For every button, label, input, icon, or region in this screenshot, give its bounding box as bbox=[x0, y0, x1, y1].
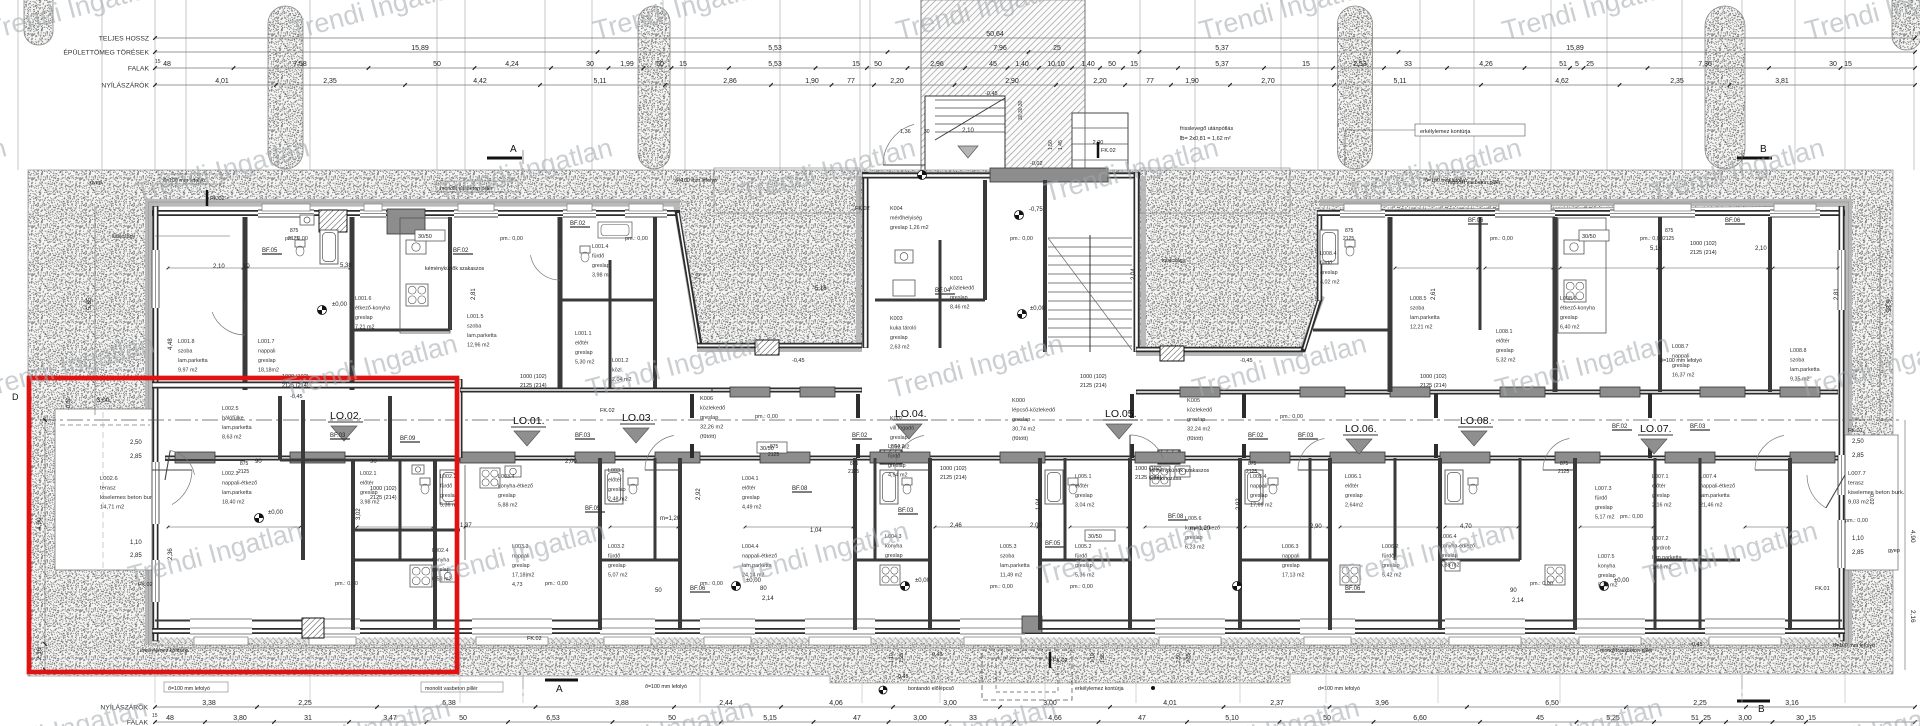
svg-text:fürdő: fürdő bbox=[888, 454, 900, 460]
exterior wall: north right section bbox=[1317, 210, 1845, 216]
svg-text:pm.: 0,00: pm.: 0,00 bbox=[1280, 414, 1303, 420]
hatched section block above stairwell bbox=[921, 0, 1085, 172]
svg-text:kéménykürtők szakaszos: kéménykürtők szakaszos bbox=[425, 266, 485, 272]
interior dimension witness lines upper rooms bbox=[167, 267, 1840, 270]
svg-text:3,80: 3,80 bbox=[233, 715, 247, 722]
svg-text:15: 15 bbox=[155, 59, 161, 65]
svg-text:5,17 m2: 5,17 m2 bbox=[1595, 515, 1614, 521]
svg-text:kéménykürtők szakaszos: kéménykürtők szakaszos bbox=[1150, 468, 1210, 474]
right edge vertical dims bbox=[1904, 420, 1906, 670]
svg-text:lépcső-közlekedő: lépcső-közlekedő bbox=[1012, 408, 1055, 414]
svg-text:előtér: előtér bbox=[575, 341, 589, 347]
svg-text:1,95: 1,95 bbox=[1100, 653, 1106, 663]
svg-text:2,50: 2,50 bbox=[1176, 653, 1182, 663]
svg-text:3,00: 3,00 bbox=[943, 700, 957, 707]
svg-text:L004.2: L004.2 bbox=[888, 444, 905, 450]
svg-text:előtér: előtér bbox=[1652, 484, 1666, 490]
svg-text:BF.02: BF.02 bbox=[570, 221, 586, 227]
svg-text:2125 (214): 2125 (214) bbox=[370, 495, 397, 501]
svg-text:2,25: 2,25 bbox=[298, 700, 312, 707]
svg-text:NYÍLÁSZÁRÓK: NYÍLÁSZÁRÓK bbox=[101, 81, 149, 90]
svg-text:BF.08: BF.08 bbox=[1168, 514, 1184, 520]
svg-text:3,00: 3,00 bbox=[1738, 715, 1752, 722]
svg-text:80: 80 bbox=[760, 586, 767, 592]
svg-text:2,92: 2,92 bbox=[696, 488, 702, 500]
svg-text:21,46 m2: 21,46 m2 bbox=[1700, 503, 1722, 509]
svg-text:4,01: 4,01 bbox=[1163, 700, 1177, 707]
svg-text:30/50: 30/50 bbox=[1088, 534, 1102, 540]
svg-text:lam.parketta: lam.parketta bbox=[1700, 493, 1730, 499]
svg-text:szoba: szoba bbox=[1410, 306, 1424, 312]
stairwell block east wall bbox=[1134, 172, 1140, 352]
svg-text:FK.02: FK.02 bbox=[855, 206, 870, 212]
svg-text:erkélylemez kontúrja: erkélylemez kontúrja bbox=[1420, 129, 1471, 135]
svg-text:L006.1: L006.1 bbox=[1345, 474, 1362, 480]
svg-text:30,74 m2: 30,74 m2 bbox=[1012, 427, 1035, 433]
chimney block north wall bbox=[319, 210, 347, 232]
svg-text:-0,45: -0,45 bbox=[985, 91, 998, 97]
svg-text:1,04: 1,04 bbox=[810, 528, 822, 534]
svg-text:greslap: greslap bbox=[1250, 493, 1268, 499]
svg-text:greslap: greslap bbox=[950, 295, 968, 301]
svg-text:greslap: greslap bbox=[1187, 417, 1205, 423]
svg-text:monolit vasbeton pillér: monolit vasbeton pillér bbox=[1600, 648, 1653, 654]
dimension row NYILASZAROK bbox=[155, 84, 1915, 86]
svg-text:BF.03: BF.03 bbox=[898, 508, 914, 514]
svg-text:kiselemes beton burk.: kiselemes beton burk. bbox=[1848, 490, 1905, 496]
svg-text:fürdő: fürdő bbox=[592, 254, 604, 260]
svg-text:15: 15 bbox=[679, 61, 687, 68]
svg-text:pm.: 0,00: pm.: 0,00 bbox=[1845, 518, 1868, 524]
svg-text:2,90: 2,90 bbox=[1310, 524, 1322, 530]
svg-text:7,36: 7,36 bbox=[1698, 61, 1712, 68]
svg-text:1,10: 1,10 bbox=[130, 540, 142, 546]
svg-text:greslap: greslap bbox=[592, 263, 610, 269]
svg-text:2125 (214): 2125 (214) bbox=[940, 475, 967, 481]
svg-text:2,14: 2,14 bbox=[1512, 598, 1524, 604]
bath pod L001 fixtures bbox=[320, 230, 338, 264]
svg-text:L008.4: L008.4 bbox=[1320, 251, 1337, 257]
svg-text:77: 77 bbox=[1146, 78, 1154, 85]
svg-text:875: 875 bbox=[1665, 228, 1674, 234]
svg-text:greslap: greslap bbox=[355, 315, 373, 321]
svg-text:BF.08: BF.08 bbox=[792, 486, 808, 492]
svg-text:11,49 m2: 11,49 m2 bbox=[1000, 573, 1022, 579]
chimney pod L005 bbox=[1158, 450, 1180, 464]
svg-text:fürdő: fürdő bbox=[1595, 496, 1607, 502]
bath L003 fixtures bbox=[605, 470, 623, 504]
svg-text:15: 15 bbox=[1302, 61, 1310, 68]
svg-text:2,85: 2,85 bbox=[1852, 453, 1864, 459]
svg-text:45: 45 bbox=[1536, 715, 1544, 722]
svg-text:BF.03: BF.03 bbox=[330, 433, 346, 439]
svg-text:szoba: szoba bbox=[1790, 358, 1804, 364]
svg-text:1,95: 1,95 bbox=[899, 653, 905, 663]
svg-text:2125 (214): 2125 (214) bbox=[1420, 383, 1447, 389]
svg-text:2,35: 2,35 bbox=[323, 78, 337, 85]
svg-text:5,88 m2: 5,88 m2 bbox=[498, 503, 517, 509]
fixtures L007 bbox=[1445, 470, 1463, 504]
section line B-B bbox=[1741, 150, 1743, 700]
svg-text:lam.parketta: lam.parketta bbox=[178, 358, 208, 364]
svg-text:5,16: 5,16 bbox=[1650, 246, 1662, 252]
svg-text:8,46 m2: 8,46 m2 bbox=[950, 305, 969, 311]
svg-text:3,02: 3,02 bbox=[356, 508, 362, 520]
chimney corridor left bbox=[755, 340, 779, 355]
svg-text:2125 (214): 2125 (214) bbox=[1690, 250, 1717, 256]
svg-text:50: 50 bbox=[874, 61, 882, 68]
svg-text:2,64m2: 2,64m2 bbox=[1345, 503, 1363, 509]
stairs treads bbox=[1048, 235, 1132, 352]
svg-text:FK.02: FK.02 bbox=[210, 196, 225, 202]
svg-text:90: 90 bbox=[370, 459, 377, 465]
svg-text:1,90: 1,90 bbox=[1185, 78, 1199, 85]
apartment markers LO.01-LO.08 bbox=[328, 410, 363, 441]
bath L002 fixtures bbox=[440, 470, 458, 504]
svg-text:L008.6: L008.6 bbox=[1560, 296, 1577, 302]
svg-text:5,53: 5,53 bbox=[768, 45, 782, 52]
chimney south wall L002 bbox=[302, 618, 324, 638]
svg-text:15,89: 15,89 bbox=[1566, 45, 1584, 52]
svg-text:30: 30 bbox=[1796, 715, 1804, 722]
svg-text:3,98 m2: 3,98 m2 bbox=[592, 273, 611, 279]
exterior wall: notch 1 (diagonal + sill) bbox=[677, 211, 700, 345]
svg-text:30,30,30: 30,30,30 bbox=[1018, 100, 1024, 120]
window sills north outside bbox=[262, 204, 310, 211]
svg-text:előtér: előtér bbox=[608, 478, 622, 484]
svg-text:nappali: nappali bbox=[1282, 554, 1299, 560]
svg-text:5,37: 5,37 bbox=[1215, 45, 1229, 52]
svg-text:-0,75: -0,75 bbox=[1029, 207, 1043, 213]
building axis line D-D bbox=[40, 419, 1900, 421]
bath L001.4 fixtures bbox=[598, 222, 632, 238]
svg-text:greslap: greslap bbox=[1595, 505, 1613, 511]
svg-text:3,04 m2: 3,04 m2 bbox=[1075, 503, 1094, 509]
svg-text:2,81: 2,81 bbox=[471, 288, 477, 300]
svg-text:greslap: greslap bbox=[1075, 493, 1093, 499]
svg-text:L001.6: L001.6 bbox=[355, 296, 372, 302]
svg-text:LO.01.: LO.01. bbox=[513, 415, 545, 427]
svg-text:10: 10 bbox=[243, 264, 250, 270]
terrace door west wall bbox=[152, 462, 160, 524]
svg-text:4,06: 4,06 bbox=[829, 700, 843, 707]
svg-text:gyep: gyep bbox=[1888, 548, 1900, 554]
svg-text:50: 50 bbox=[656, 61, 664, 68]
svg-text:14,71 m2: 14,71 m2 bbox=[100, 505, 124, 511]
svg-text:előtér: előtér bbox=[1345, 484, 1359, 490]
concrete pillar columns (stippled capsules) bbox=[268, 6, 303, 169]
svg-text:25: 25 bbox=[1586, 61, 1594, 68]
svg-text:5,11: 5,11 bbox=[593, 78, 606, 85]
svg-text:L007.2: L007.2 bbox=[1652, 536, 1669, 542]
svg-text:közlekedő: közlekedő bbox=[700, 406, 725, 412]
svg-text:m=1,20: m=1,20 bbox=[660, 516, 681, 522]
step line bbox=[165, 647, 1845, 649]
demolition steps dashed outline bbox=[982, 650, 1072, 700]
fixtures L006 bbox=[1245, 470, 1263, 504]
svg-text:3,00: 3,00 bbox=[913, 715, 927, 722]
svg-text:2,86: 2,86 bbox=[723, 78, 737, 85]
dimension row EPULETTOMEG TORESEK bbox=[155, 51, 1915, 53]
svg-text:pm.: 0,00: pm.: 0,00 bbox=[1010, 236, 1033, 242]
svg-text:hálófülke: hálófülke bbox=[222, 416, 244, 422]
svg-text:L002.1: L002.1 bbox=[360, 471, 377, 477]
svg-text:BF.05: BF.05 bbox=[1045, 541, 1061, 547]
hatch block edges bbox=[920, 0, 922, 172]
svg-text:1000 (102): 1000 (102) bbox=[1420, 374, 1447, 380]
svg-text:2,96: 2,96 bbox=[930, 61, 944, 68]
svg-text:2,10: 2,10 bbox=[962, 128, 974, 134]
svg-text:50: 50 bbox=[459, 715, 467, 722]
svg-text:2,63 m2: 2,63 m2 bbox=[890, 345, 909, 351]
windows west wall bbox=[152, 250, 160, 308]
kitchen L004 pod bbox=[880, 565, 900, 585]
svg-text:25: 25 bbox=[1703, 715, 1711, 722]
svg-text:2,70: 2,70 bbox=[1261, 78, 1275, 85]
svg-text:2,14: 2,14 bbox=[762, 596, 774, 602]
svg-text:lam.parketta: lam.parketta bbox=[1410, 315, 1440, 321]
svg-text:A: A bbox=[510, 144, 517, 155]
svg-text:nappali-étkező: nappali-étkező bbox=[1700, 484, 1735, 490]
stair section mini-drawing top center bbox=[900, 91, 1128, 172]
svg-text:875: 875 bbox=[1345, 228, 1354, 234]
svg-text:5,38: 5,38 bbox=[340, 263, 352, 269]
exterior wall: east bbox=[1839, 206, 1845, 641]
corridor north wall bbox=[712, 388, 862, 393]
svg-text:B: B bbox=[1758, 704, 1765, 715]
svg-text:2,25: 2,25 bbox=[1693, 700, 1707, 707]
svg-text:18,40 m2: 18,40 m2 bbox=[222, 500, 244, 506]
svg-text:greslap: greslap bbox=[608, 563, 626, 569]
svg-text:pm.: 0,00: pm.: 0,00 bbox=[1620, 514, 1643, 520]
svg-text:K003: K003 bbox=[890, 316, 903, 322]
svg-text:50: 50 bbox=[433, 61, 441, 68]
exterior wall: north left section bbox=[152, 210, 680, 216]
svg-text:1,04: 1,04 bbox=[1036, 498, 1042, 510]
svg-text:L007.7: L007.7 bbox=[1848, 471, 1866, 477]
svg-text:90: 90 bbox=[1510, 588, 1517, 594]
svg-text:2,48 m2: 2,48 m2 bbox=[608, 497, 627, 503]
svg-text:greslap: greslap bbox=[608, 487, 626, 493]
svg-text:étkező-konyha: étkező-konyha bbox=[1560, 306, 1595, 312]
svg-text:50: 50 bbox=[655, 588, 662, 594]
svg-text:30: 30 bbox=[1829, 61, 1837, 68]
svg-text:5,10: 5,10 bbox=[1225, 715, 1239, 722]
svg-text:-0,45: -0,45 bbox=[792, 358, 805, 364]
svg-text:L003.4: L003.4 bbox=[498, 474, 515, 480]
svg-text:L008.5: L008.5 bbox=[1410, 296, 1427, 302]
svg-text:1,37: 1,37 bbox=[460, 523, 472, 529]
svg-text:4,90: 4,90 bbox=[1909, 530, 1916, 543]
svg-text:gardrob: gardrob bbox=[1652, 546, 1671, 552]
svg-text:greslap: greslap bbox=[498, 493, 516, 499]
svg-text:32,26 m2: 32,26 m2 bbox=[700, 425, 723, 431]
svg-text:4,62: 4,62 bbox=[1555, 78, 1569, 85]
windows north wall left bbox=[258, 210, 314, 218]
bottom dimension row FALAK bbox=[155, 721, 1915, 723]
svg-text:pm.: 0,00: pm.: 0,00 bbox=[1490, 236, 1513, 242]
svg-text:LO.05.: LO.05. bbox=[1105, 408, 1137, 420]
terrace L002.6 bbox=[55, 409, 152, 570]
svg-text:greslap: greslap bbox=[1496, 348, 1514, 354]
svg-text:16,37 m2: 16,37 m2 bbox=[1672, 373, 1694, 379]
svg-text:FK.02: FK.02 bbox=[527, 636, 542, 642]
svg-text:L001.5: L001.5 bbox=[467, 314, 484, 320]
window sills south outside bbox=[194, 637, 248, 645]
svg-text:2125: 2125 bbox=[1663, 236, 1674, 242]
svg-text:15: 15 bbox=[1808, 715, 1816, 722]
svg-text:6,50: 6,50 bbox=[1545, 700, 1559, 707]
svg-text:előtér: előtér bbox=[1496, 339, 1510, 345]
concrete perimeter band (gray) bbox=[145, 199, 680, 206]
svg-text:L007.1: L007.1 bbox=[1652, 474, 1669, 480]
svg-text:31: 31 bbox=[304, 715, 312, 722]
svg-text:2,90: 2,90 bbox=[1005, 78, 1019, 85]
svg-text:bontandó előlépcső: bontandó előlépcső bbox=[908, 686, 954, 692]
svg-text:greslap 1,26 m2: greslap 1,26 m2 bbox=[890, 225, 929, 231]
svg-text:L001.4: L001.4 bbox=[592, 244, 609, 250]
svg-text:2,16: 2,16 bbox=[1909, 610, 1916, 623]
kitchen L008.6 bbox=[1558, 218, 1606, 333]
windows south wall bbox=[190, 617, 252, 638]
svg-text:greslap: greslap bbox=[700, 415, 718, 421]
svg-text:2,04: 2,04 bbox=[1131, 268, 1137, 280]
svg-text:1000 (102): 1000 (102) bbox=[1080, 374, 1107, 380]
svg-text:greslap: greslap bbox=[1345, 493, 1363, 499]
svg-text:2,46: 2,46 bbox=[950, 523, 962, 529]
svg-text:frisslevegő utánpótlás: frisslevegő utánpótlás bbox=[1180, 126, 1233, 132]
drain edge offset line around building bbox=[148, 201, 690, 203]
svg-text:2,10: 2,10 bbox=[1755, 246, 1767, 252]
svg-text:5,07 m2: 5,07 m2 bbox=[608, 573, 627, 579]
svg-text:4,24: 4,24 bbox=[505, 61, 519, 68]
svg-text:6,40 m2: 6,40 m2 bbox=[1560, 325, 1579, 331]
svg-text:K001: K001 bbox=[950, 276, 963, 282]
svg-text:lam.parketta: lam.parketta bbox=[222, 490, 252, 496]
svg-text:2,50: 2,50 bbox=[130, 440, 142, 446]
svg-text:1,10: 1,10 bbox=[889, 653, 895, 663]
svg-text:5,53: 5,53 bbox=[768, 61, 782, 68]
svg-text:2,10: 2,10 bbox=[213, 264, 225, 270]
svg-text:50,64: 50,64 bbox=[986, 31, 1004, 38]
svg-text:50: 50 bbox=[1108, 61, 1116, 68]
svg-text:±0,00: ±0,00 bbox=[268, 510, 284, 516]
svg-text:előtér: előtér bbox=[742, 486, 756, 492]
svg-text:4,90: 4,90 bbox=[36, 517, 43, 530]
svg-text:fürdő: fürdő bbox=[1320, 261, 1332, 267]
windows north wall right bbox=[1340, 210, 1385, 218]
svg-text:4,49 m2: 4,49 m2 bbox=[742, 505, 761, 511]
svg-text:2,85: 2,85 bbox=[1186, 653, 1192, 663]
svg-text:15: 15 bbox=[1130, 61, 1138, 68]
svg-text:(fűtött): (fűtött) bbox=[700, 434, 716, 440]
svg-text:LO.07.: LO.07. bbox=[1640, 423, 1672, 435]
svg-text:2125: 2125 bbox=[1246, 469, 1257, 475]
svg-text:kavicságy: kavicságy bbox=[112, 234, 136, 240]
svg-text:gyep: gyep bbox=[90, 180, 102, 186]
svg-text:L001.1: L001.1 bbox=[575, 331, 592, 337]
svg-text:greslap: greslap bbox=[742, 495, 760, 501]
svg-text:47: 47 bbox=[853, 715, 861, 722]
svg-text:BF.06: BF.06 bbox=[1468, 218, 1484, 224]
svg-text:2125: 2125 bbox=[768, 452, 779, 458]
svg-text:pm.: 0,00: pm.: 0,00 bbox=[500, 236, 523, 242]
svg-text:2,16 m2: 2,16 m2 bbox=[1652, 503, 1671, 509]
partition walls upper rooms left wing bbox=[243, 217, 248, 390]
svg-text:L003.1: L003.1 bbox=[608, 468, 625, 474]
svg-text:5,85: 5,85 bbox=[1884, 300, 1891, 313]
svg-text:6,53: 6,53 bbox=[546, 715, 560, 722]
svg-text:2125: 2125 bbox=[1343, 236, 1354, 242]
svg-text:K004: K004 bbox=[890, 206, 903, 212]
svg-text:pm.: 0,00: pm.: 0,00 bbox=[1640, 236, 1663, 242]
svg-text:kuka tároló: kuka tároló bbox=[890, 326, 916, 332]
door arcs bbox=[172, 470, 192, 505]
svg-text:terasz: terasz bbox=[1848, 481, 1864, 487]
exterior wall: notch 2 bbox=[1136, 347, 1305, 353]
svg-text:BF.03: BF.03 bbox=[575, 433, 591, 439]
svg-text:greslap: greslap bbox=[1282, 563, 1300, 569]
svg-text:1000 (102): 1000 (102) bbox=[940, 466, 967, 472]
svg-text:(fűtött): (fűtött) bbox=[1012, 436, 1028, 442]
corridor north wall piers bbox=[730, 387, 770, 397]
svg-text:5,32 m2: 5,32 m2 bbox=[1496, 358, 1515, 364]
svg-text:1,10: 1,10 bbox=[1852, 536, 1864, 542]
svg-text:FK.01: FK.01 bbox=[1848, 428, 1863, 434]
svg-text:L007.3: L007.3 bbox=[1595, 486, 1612, 492]
svg-text:3,38: 3,38 bbox=[202, 700, 216, 707]
svg-text:BF.03: BF.03 bbox=[1690, 424, 1706, 430]
grid extension lines top band bbox=[18, 0, 1914, 170]
svg-text:2,20: 2,20 bbox=[1093, 78, 1107, 85]
svg-text:greslap: greslap bbox=[575, 350, 593, 356]
svg-text:FK.02: FK.02 bbox=[1053, 658, 1068, 664]
svg-text:15: 15 bbox=[152, 713, 158, 719]
svg-text:5,11: 5,11 bbox=[1393, 78, 1406, 85]
svg-text:5: 5 bbox=[1575, 61, 1579, 68]
svg-text:1,90: 1,90 bbox=[805, 78, 819, 85]
svg-text:greslap: greslap bbox=[885, 553, 903, 559]
svg-text:47: 47 bbox=[1138, 715, 1146, 722]
svg-text:77: 77 bbox=[847, 78, 855, 85]
south terrace slab hatch band bbox=[160, 638, 1840, 643]
svg-text:pm.: 0,00: pm.: 0,00 bbox=[1070, 584, 1093, 590]
svg-text:FK.01: FK.01 bbox=[1815, 586, 1830, 592]
svg-text:17,69 m2: 17,69 m2 bbox=[1250, 503, 1272, 509]
svg-text:-0,02: -0,02 bbox=[1868, 492, 1874, 505]
svg-text:15: 15 bbox=[852, 61, 860, 68]
svg-text:875: 875 bbox=[240, 461, 249, 467]
svg-text:erkélylemez kontúrja: erkélylemez kontúrja bbox=[1075, 686, 1124, 692]
chimney pod L004 bbox=[880, 450, 902, 464]
red highlight rectangle (apartment L002) bbox=[29, 378, 457, 672]
svg-text:nappali: nappali bbox=[1250, 484, 1267, 490]
partition walls lower rooms bbox=[301, 400, 305, 560]
svg-text:BF.09: BF.09 bbox=[400, 436, 416, 442]
svg-text:4,54 m2: 4,54 m2 bbox=[888, 473, 907, 479]
svg-text:monolit vasbeton pillér: monolit vasbeton pillér bbox=[425, 686, 478, 692]
svg-text:±0,00: ±0,00 bbox=[1030, 306, 1046, 312]
svg-text:L001.7: L001.7 bbox=[258, 339, 275, 345]
svg-text:5,16: 5,16 bbox=[815, 286, 827, 292]
svg-text:L005.1: L005.1 bbox=[1075, 474, 1092, 480]
svg-text:2125 (214): 2125 (214) bbox=[1080, 383, 1107, 389]
svg-text:12,96 m2: 12,96 m2 bbox=[467, 343, 489, 349]
svg-text:1,10: 1,10 bbox=[1090, 653, 1096, 663]
svg-text:d=100 mm lefolyó: d=100 mm lefolyó bbox=[1833, 643, 1875, 649]
svg-text:FALAK: FALAK bbox=[128, 66, 150, 73]
terrace L007.7 bbox=[1845, 435, 1898, 570]
